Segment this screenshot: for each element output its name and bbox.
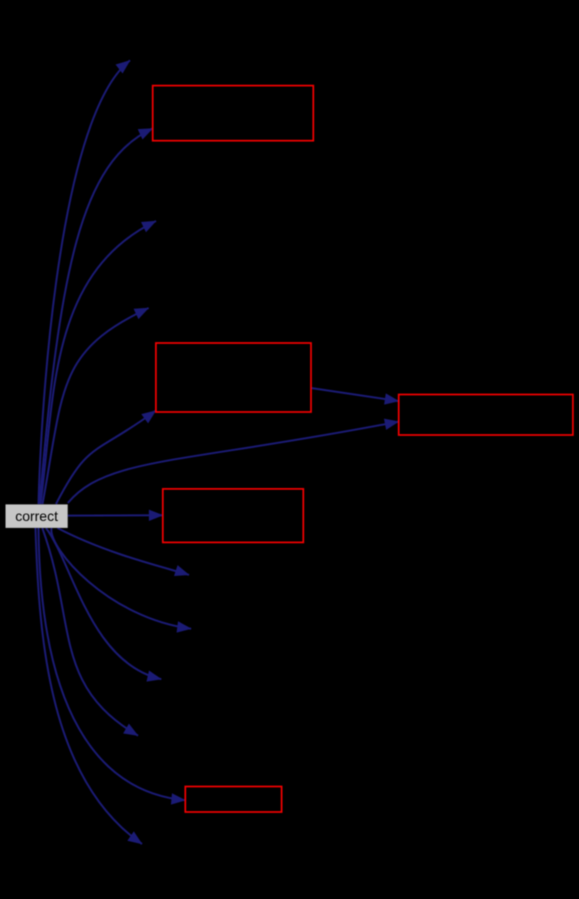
wire edge K correct->node bbox=[42, 528, 138, 736]
wire edge I correct->node bbox=[51, 528, 191, 629]
node box3 (red) bbox=[399, 395, 573, 436]
wire edge B correct->box1 bbox=[40, 128, 153, 504]
wire edge F correct->box3 bbox=[68, 422, 399, 503]
node box5 (red) bbox=[185, 787, 281, 813]
wire edge D correct->node bbox=[43, 308, 149, 504]
svg-text:correct: correct bbox=[15, 508, 58, 524]
node box1 (red) bbox=[153, 86, 314, 141]
wire edge G correct->box4 bbox=[68, 514, 163, 516]
wire edge L correct->box5 bbox=[39, 528, 186, 800]
wire edge J correct->node bbox=[46, 528, 161, 679]
wire edge C correct->node bbox=[41, 221, 157, 504]
wire edge E correct->box2 bbox=[56, 411, 156, 505]
wire edge A correct->node top bbox=[39, 60, 131, 504]
node box2 (red) bbox=[156, 343, 311, 412]
wire edge H correct->node bbox=[58, 528, 190, 575]
node correct bbox=[6, 504, 68, 528]
wire edge N box2->box3 bbox=[311, 388, 399, 401]
wire edge M correct->node bbox=[36, 528, 143, 844]
node box4 (red) bbox=[163, 489, 303, 543]
